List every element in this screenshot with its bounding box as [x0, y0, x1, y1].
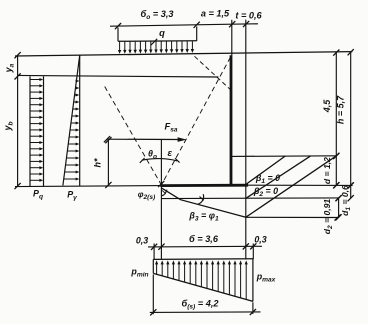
svg-text:β3 = φ1: β3 = φ1 — [188, 211, 219, 223]
footing base level line (left) — [15, 186, 161, 187]
svg-text:Pq: Pq — [33, 189, 43, 201]
top dimension line — [110, 21, 258, 41]
svg-text:β2 = 0: β2 = 0 — [253, 186, 278, 198]
label theta0 — [148, 149, 157, 161]
ground surface line — [15, 52, 353, 56]
label y_a — [4, 63, 16, 73]
pressure diagram P_gamma — [63, 55, 80, 186]
svg-text:d2 = 0,91: d2 = 0,91 — [322, 199, 334, 235]
slip line beta3 = phi1 — [161, 188, 245, 217]
label b=3,6 — [189, 234, 219, 244]
label q — [151, 27, 165, 45]
dashed slip plane from wall top to heel — [161, 57, 230, 185]
svg-text:б = 3,6: б = 3,6 — [189, 234, 219, 244]
footing base (thick) — [160, 184, 248, 187]
svg-text:d1 = 0,6: d1 = 0,6 — [340, 185, 352, 216]
label phi2(s) — [138, 190, 156, 201]
svg-text:t = 0,6: t = 0,6 — [235, 11, 262, 21]
heel tick — [158, 181, 164, 187]
slip line S1 — [246, 156, 285, 184]
label p_min — [130, 267, 148, 279]
label p_max — [256, 272, 276, 284]
heel vertical line — [160, 139, 162, 259]
dashed line load edge to wall — [195, 56, 231, 89]
label b0=3,3 — [141, 9, 174, 21]
dimension line h* — [105, 137, 111, 188]
label beta1=0 — [255, 173, 280, 185]
label b(s)=4,2 — [181, 299, 219, 311]
label beta2=0 — [253, 186, 278, 198]
label 0,3 left — [136, 236, 148, 246]
soil line d2 bottom — [246, 214, 341, 220]
label a=1,5 — [201, 9, 230, 19]
soil line d2 top — [161, 195, 341, 201]
svg-text:β1 = 0: β1 = 0 — [255, 173, 280, 185]
svg-text:pmax: pmax — [256, 272, 276, 284]
dimension line b(s)=4,2 — [150, 275, 261, 316]
svg-text:0,3: 0,3 — [136, 236, 148, 246]
label P_gamma — [67, 190, 77, 202]
label 0,3 right — [254, 235, 266, 245]
svg-text:б(s) = 4,2: б(s) = 4,2 — [181, 299, 219, 311]
label d1=0,6 — [340, 185, 352, 216]
svg-text:ya: ya — [4, 63, 16, 73]
label h=5,7 — [336, 95, 346, 124]
angle arc theta0 epsilon — [140, 158, 180, 163]
footing base level extension (right) — [248, 182, 354, 188]
label 4,5 — [322, 99, 332, 114]
label epsilon — [168, 147, 173, 158]
label F_sa — [164, 121, 177, 134]
svg-text:θo: θo — [148, 149, 157, 161]
slip line S2 — [246, 156, 311, 198]
label d2=0,91 — [322, 199, 334, 235]
svg-text:h = 5,7: h = 5,7 — [336, 95, 346, 124]
svg-text:4,5: 4,5 — [322, 99, 332, 114]
svg-text:0,3: 0,3 — [254, 235, 266, 245]
angle mark on beta3 — [198, 194, 204, 204]
angle arc phi2(s) — [162, 190, 167, 196]
dimension line h / d1 — [348, 49, 354, 201]
label y_b — [3, 121, 15, 131]
svg-text:d = 1,2: d = 1,2 — [322, 157, 332, 184]
distributed load q arrows — [118, 41, 197, 54]
pressure diagram P_q — [30, 76, 44, 186]
force line F_sa — [104, 136, 187, 142]
backfill level line y_a — [17, 75, 218, 77]
label d=1,2 — [322, 157, 332, 184]
svg-text:h*: h* — [93, 158, 103, 167]
excavation level line (right) — [231, 153, 340, 159]
svg-text:q: q — [159, 27, 165, 38]
svg-text:φ2(s): φ2(s) — [138, 190, 156, 201]
bearing pressure diagram — [153, 259, 253, 302]
svg-text:a = 1,5: a = 1,5 — [201, 9, 230, 19]
label t=0,6 — [235, 11, 262, 21]
label P_q — [33, 189, 43, 201]
svg-text:бo = 3,3: бo = 3,3 — [141, 9, 174, 21]
dimension line b=3,6 with 0,3 margins — [148, 243, 262, 259]
wall front face vertical — [245, 20, 247, 260]
slip line S3 — [246, 156, 336, 217]
dashed slip plane left to heel — [105, 87, 162, 186]
dimension line 4,5 / d / d2 — [333, 50, 342, 221]
label beta3 = phi1 — [188, 211, 219, 223]
svg-text:yb: yb — [3, 121, 15, 131]
dimension line y_a / y_b (left) — [15, 52, 21, 189]
svg-text:pmin: pmin — [130, 267, 148, 279]
wall back face top extension — [231, 20, 233, 56]
label h* — [93, 158, 103, 167]
svg-text:ε: ε — [168, 147, 173, 158]
svg-text:Pγ: Pγ — [67, 190, 77, 202]
svg-text:Fsa: Fsa — [164, 121, 177, 134]
wall back face (thick) — [230, 55, 233, 185]
